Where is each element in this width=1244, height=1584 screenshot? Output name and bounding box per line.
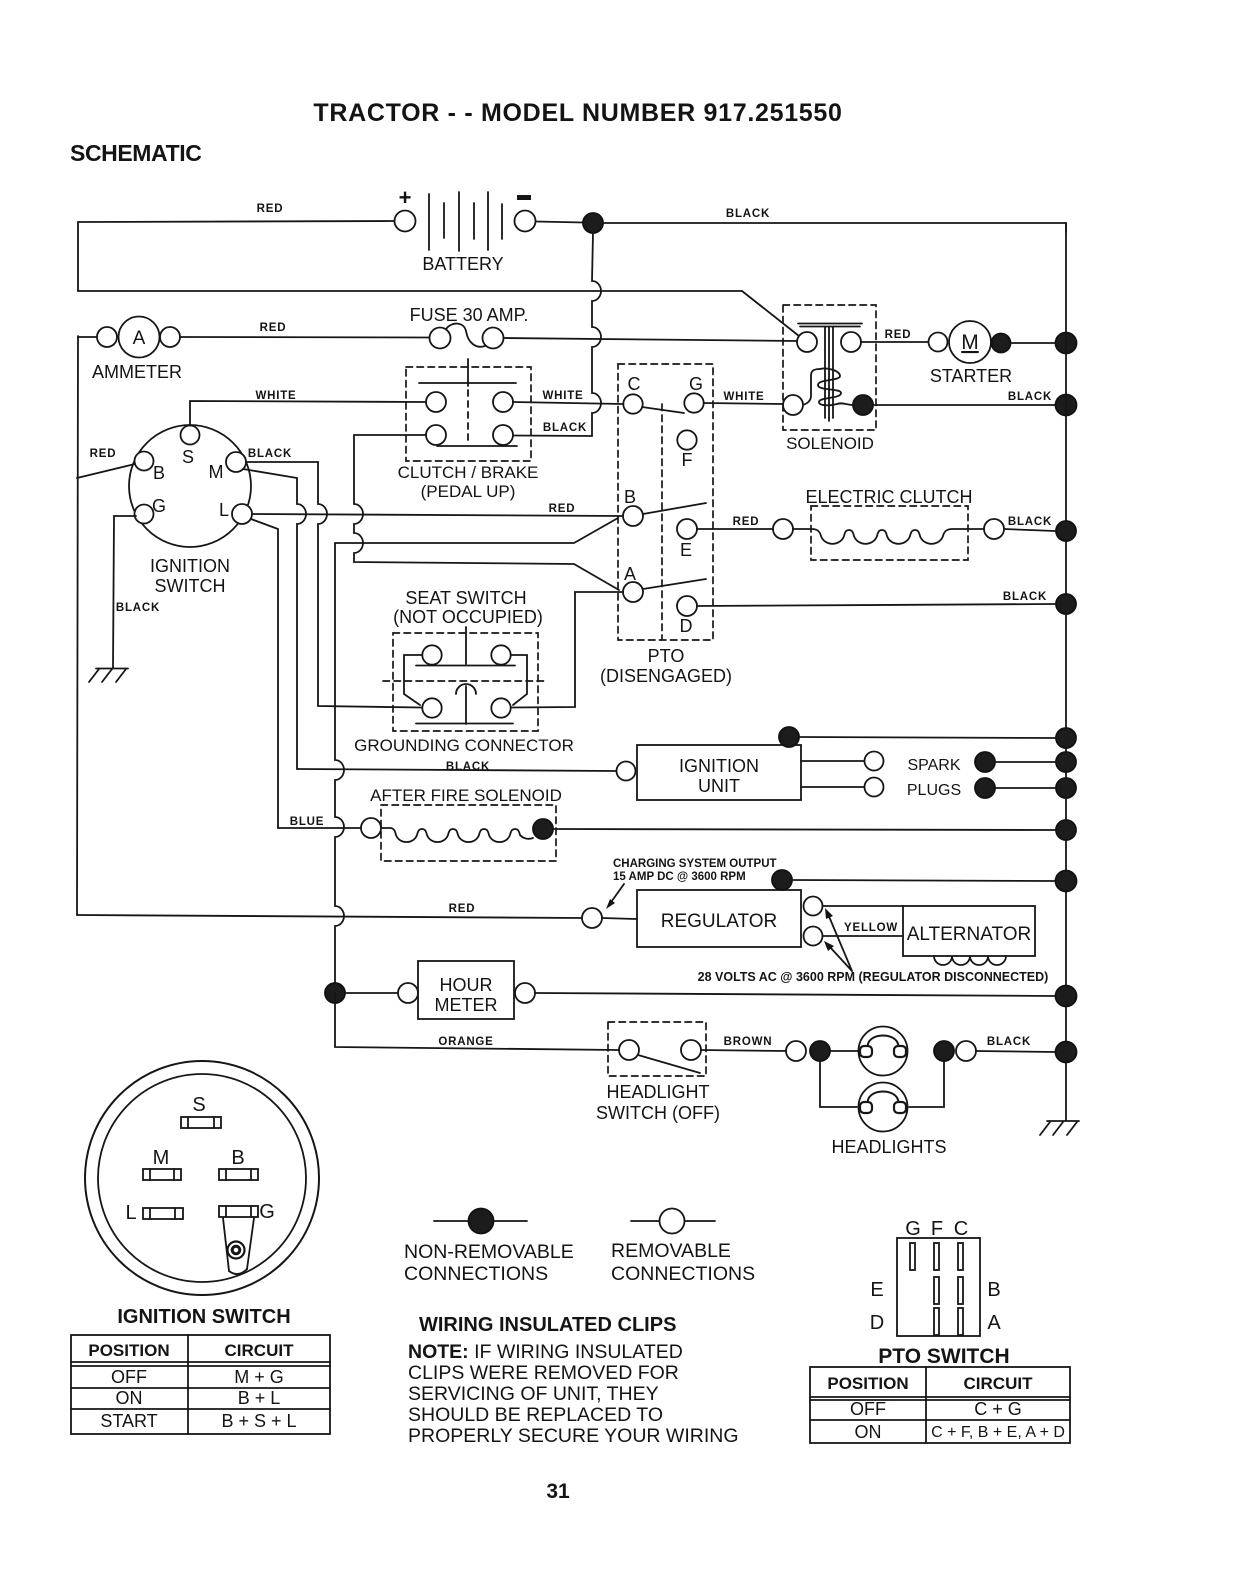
junction dot at bus (ignition unit line) [1056,728,1076,748]
wire electric clutch BLACK to right bus [1004,516,1055,531]
svg-text:BLACK: BLACK [1003,591,1047,603]
svg-text:M + G: M + G [234,1367,284,1387]
wire starter to right bus [1011,342,1056,344]
svg-text:CIRCUIT: CIRCUIT [964,1374,1034,1393]
wire solenoid to starter RED [861,329,928,342]
svg-text:WIRING INSULATED CLIPS: WIRING INSULATED CLIPS [419,1314,676,1336]
svg-text:E: E [680,540,692,560]
svg-text:HOUR: HOUR [440,975,493,995]
svg-text:SCHEMATIC: SCHEMATIC [70,140,201,166]
wire ignition unit to spark plug 2 [801,786,864,788]
svg-text:B + L: B + L [238,1388,281,1408]
spark plug terminal 2 [865,778,884,797]
svg-text:C: C [628,374,641,394]
svg-text:CONNECTIONS: CONNECTIONS [404,1263,548,1285]
ignition switch connector view [85,1061,319,1328]
svg-text:BLACK: BLACK [1008,516,1052,528]
svg-text:M: M [961,331,979,354]
wire to headlight 1 [830,1050,858,1052]
PTO switch connector view [870,1218,1010,1368]
headlight lamp E1 [859,1027,908,1076]
svg-text:M: M [209,462,224,482]
svg-text:SHOULD BE REPLACED TO: SHOULD BE REPLACED TO [408,1404,663,1426]
vertical wire battery negative drop with hops [514,233,602,436]
wiring insulated clips note [408,1314,738,1447]
clutch/brake switch S2 (pedal up) [398,359,539,501]
legend removable connection [611,1209,755,1286]
ground (right bus) [1040,1121,1079,1135]
headlight switch S5 (off) [596,1022,720,1123]
svg-text:ALTERNATOR: ALTERNATOR [907,924,1032,945]
wire regulator to alternator top [823,905,904,907]
wire battery feed to solenoid (with hops) [78,290,742,292]
svg-text:RED: RED [90,448,117,460]
svg-text:NON-REMOVABLE: NON-REMOVABLE [404,1241,574,1263]
spark plug 1 P1 [975,752,995,772]
ground (ignition switch G) [89,669,128,683]
grounding connector J1 [354,684,574,755]
headlight lamp E2 [831,1083,946,1158]
wire L terminal RED to PTO B [252,503,623,516]
svg-text:B + S + L: B + S + L [221,1411,296,1431]
pin B [958,1277,963,1304]
svg-text:(PEDAL UP): (PEDAL UP) [421,482,516,501]
wire M drop to seat switch (vertical with hop) [318,462,422,708]
svg-text:BROWN: BROWN [724,1036,773,1048]
wire PTO E RED to electric clutch [697,516,773,529]
svg-text:RED: RED [885,329,912,341]
svg-text:RED: RED [733,516,760,528]
hour meter M2 [398,961,535,1019]
terminal S slot [181,1094,221,1128]
svg-text:S: S [182,447,194,467]
junction dot regulator top [772,870,792,890]
wire battery positive RED to left bus [78,203,395,291]
svg-text:TRACTOR - - MODEL NUMBER 917.2: TRACTOR - - MODEL NUMBER 917.251550 [313,99,842,127]
svg-text:UNIT: UNIT [698,776,740,796]
seat switch S4 (not occupied) [383,588,547,731]
svg-text:CLUTCH / BRAKE: CLUTCH / BRAKE [398,463,539,482]
ammeter A1 [78,317,182,383]
svg-text:ELECTRIC CLUTCH: ELECTRIC CLUTCH [805,487,972,507]
wire regulator to alternator YELLOW [823,922,904,936]
wire L diagonal to after-fire drop [251,519,361,828]
svg-text:RED: RED [260,322,287,334]
junction dot after-fire at bus [1056,820,1076,840]
svg-text:SOLENOID: SOLENOID [786,434,874,453]
spark plug 2 P2 [975,778,995,798]
starter M1 [929,321,1013,386]
wire solenoid output BLACK to right bus [873,391,1055,405]
svg-text:WHITE: WHITE [255,390,296,402]
svg-text:F: F [931,1218,943,1240]
svg-text:HEADLIGHTS: HEADLIGHTS [831,1137,946,1157]
svg-text:28 VOLTS AC @ 3600 RPM (REGULA: 28 VOLTS AC @ 3600 RPM (REGULATOR DISCON… [698,970,1049,984]
svg-text:(NOT OCCUPIED): (NOT OCCUPIED) [393,607,543,627]
svg-text:REGULATOR: REGULATOR [661,911,778,932]
wire M diagonal to ignition-unit drop [243,469,306,769]
svg-text:A: A [987,1312,1001,1334]
junction dot battery negative [583,213,603,233]
pin E [934,1277,939,1304]
svg-text:OFF: OFF [850,1399,886,1419]
junction dot hour meter at bus [1056,986,1077,1007]
svg-text:G: G [259,1201,275,1223]
pin A [958,1308,963,1335]
svg-text:C + F, B + E, A + D: C + F, B + E, A + D [931,1424,1065,1441]
junction dot starter at bus [1056,333,1077,354]
svg-text:SPARK: SPARK [907,757,960,774]
pin G [910,1243,915,1270]
battery B1 [395,185,536,274]
svg-text:BLACK: BLACK [446,761,490,773]
svg-text:B: B [987,1279,1000,1301]
removable connector headlight return [956,1041,976,1061]
svg-text:YELLOW: YELLOW [844,922,898,934]
terminal B slot [219,1147,258,1180]
wire BLACK headlights to right bus [976,1036,1055,1052]
svg-text:L: L [125,1202,136,1224]
svg-text:G: G [689,374,703,394]
svg-text:BLACK: BLACK [543,422,587,434]
svg-text:POSITION: POSITION [88,1341,169,1360]
junction dot ignition unit top [779,727,799,747]
wire PTO D BLACK to right bus [697,591,1055,606]
svg-text:G: G [152,496,166,516]
wire fuse to solenoid RED [504,338,798,341]
svg-text:CONNECTIONS: CONNECTIONS [611,1263,755,1285]
wire hour meter to right bus [535,993,1055,996]
svg-text:AFTER FIRE SOLENOID: AFTER FIRE SOLENOID [370,786,562,805]
svg-text:PLUGS: PLUGS [907,782,961,799]
svg-text:CHARGING SYSTEM OUTPUT: CHARGING SYSTEM OUTPUT [613,858,777,870]
junction dot solenoid black at bus [1056,395,1077,416]
svg-text:PTO SWITCH: PTO SWITCH [878,1345,1009,1368]
regulator U2 [637,890,801,947]
svg-text:BLACK: BLACK [116,602,160,614]
legend non-removable connection [404,1209,574,1286]
wire B terminal RED to left bus [77,448,135,478]
after fire solenoid L2 [290,786,562,861]
svg-text:31: 31 [546,1480,570,1503]
junction dot PTO D at bus [1056,594,1076,614]
svg-text:M: M [153,1147,170,1169]
svg-text:FUSE 30 AMP.: FUSE 30 AMP. [410,305,529,325]
charging system note + arrow [606,858,777,909]
wire PTO G WHITE to solenoid [704,391,783,404]
svg-text:CLIPS WERE REMOVED FOR: CLIPS WERE REMOVED FOR [408,1362,679,1384]
right bus vertical wire [1065,223,1067,1121]
svg-text:SWITCH (OFF): SWITCH (OFF) [596,1103,720,1123]
wire clutch/brake WHITE to PTO C (hop at battery drop) [513,390,623,404]
svg-text:L: L [219,500,229,520]
svg-text:ON: ON [855,1422,882,1442]
junction dot hour meter feed [325,983,345,1003]
junction dot headlights at bus [1056,1042,1077,1063]
wire grounding BLACK to ignition unit [297,761,617,773]
wire branch to headlight 2 right [909,1061,944,1107]
ignition unit U1 [617,745,802,800]
junction dot headlight branch left [810,1041,830,1061]
svg-text:REMOVABLE: REMOVABLE [611,1240,731,1262]
wire battery negative to junction [536,222,584,223]
terminal G slot [219,1201,275,1223]
wire accessory feed drop (B node to hour meter / orange) [335,518,618,543]
wire branch to headlight 2 left [820,1061,857,1107]
pin D [934,1308,939,1335]
ignition switch S1 (schematic) [129,425,252,596]
svg-text:B: B [624,487,636,507]
svg-text:POSITION: POSITION [827,1374,908,1393]
wire ignition unit to spark plug 1 [801,760,864,762]
wire regulator top to right bus [792,880,1055,881]
terminal M slot [143,1147,181,1180]
svg-text:PROPERLY SECURE YOUR WIRING: PROPERLY SECURE YOUR WIRING [408,1425,738,1447]
wire regulator input RED from left bus [77,903,582,918]
svg-text:ORANGE: ORANGE [438,1036,493,1048]
svg-text:STARTER: STARTER [930,366,1012,386]
wire to hour meter [345,992,398,994]
svg-text:A: A [133,328,146,349]
fuse F1 30A [410,305,529,349]
svg-text:B: B [153,463,165,483]
svg-text:BLACK: BLACK [987,1036,1031,1048]
svg-text:A: A [624,564,636,584]
svg-text:15 AMP DC @ 3600 RPM: 15 AMP DC @ 3600 RPM [613,871,746,883]
svg-text:RED: RED [257,203,284,215]
svg-text:IGNITION: IGNITION [679,756,759,776]
svg-text:S: S [192,1094,205,1116]
wire ammeter to fuse RED [180,322,430,338]
solenoid K1 [783,305,876,453]
svg-text:D: D [870,1312,884,1334]
svg-text:START: START [100,1411,157,1431]
svg-text:C + G: C + G [974,1399,1022,1419]
svg-text:RED: RED [449,903,476,915]
svg-text:D: D [680,616,693,636]
wire S terminal WHITE up to clutch/brake [190,390,426,426]
spark plug terminal 1 [865,752,884,771]
svg-text:METER: METER [435,995,498,1015]
wire clutch/brake lower-left to A-drop [354,434,426,436]
wire M terminal BLACK horizontal to seat-switch drop [246,448,318,462]
svg-text:GROUNDING CONNECTOR: GROUNDING CONNECTOR [354,736,574,755]
svg-text:BLUE: BLUE [290,816,325,828]
svg-text:IGNITION: IGNITION [150,556,230,576]
svg-text:SERVICING OF UNIT, THEY: SERVICING OF UNIT, THEY [408,1383,659,1405]
svg-text:BATTERY: BATTERY [422,254,503,274]
pin C [958,1243,963,1270]
PTO switch S3 (disengaged) [600,364,732,686]
key index pointer [223,1218,254,1274]
pin F [934,1243,939,1270]
wire ignition unit top to right bus [799,737,1056,738]
svg-text:PTO: PTO [648,646,685,666]
svg-text:SWITCH: SWITCH [155,576,226,596]
svg-text:ON: ON [116,1388,143,1408]
alternator G1 [903,906,1035,965]
terminal L slot [125,1202,183,1224]
svg-text:+: + [399,185,412,210]
svg-text:B: B [231,1147,244,1169]
svg-text:BLACK: BLACK [248,448,292,460]
electric clutch L1 [773,487,1004,560]
wire ORANGE to headlight switch [335,993,619,1050]
svg-text:SEAT SWITCH: SEAT SWITCH [405,588,526,608]
svg-text:IGNITION SWITCH: IGNITION SWITCH [117,1306,290,1328]
wire diagonal into solenoid [742,291,799,336]
alternator voltage note with arrows [698,908,1049,984]
svg-text:G: G [905,1218,921,1240]
svg-text:HEADLIGHT: HEADLIGHT [606,1082,709,1102]
svg-text:BLACK: BLACK [1008,391,1052,403]
svg-text:WHITE: WHITE [723,391,764,403]
svg-text:RED: RED [549,503,576,515]
svg-text:CIRCUIT: CIRCUIT [225,1341,295,1360]
svg-text:AMMETER: AMMETER [92,362,182,382]
svg-text:NOTE: IF WIRING INSULATED: NOTE: IF WIRING INSULATED [408,1341,683,1363]
svg-text:OFF: OFF [111,1367,147,1387]
svg-text:E: E [870,1279,883,1301]
junction dot electric clutch at bus [1056,521,1076,541]
svg-text:F: F [682,450,693,470]
wire after-fire to right bus [553,829,1056,830]
regulator input terminal [582,908,602,928]
svg-text:(DISENGAGED): (DISENGAGED) [600,666,732,686]
PTO switch table [810,1367,1070,1443]
wire clutch/brake to PTO A (vertical with hops) [354,435,619,590]
svg-text:BLACK: BLACK [726,208,770,220]
wire BROWN to headlights [701,1036,786,1051]
wire G terminal BLACK to ground [113,516,160,668]
wire seat switch to PTO A riser [511,592,623,708]
left bus vertical wire (ammeter to regulator) [77,337,78,915]
removable connector headlight feed [786,1041,806,1061]
regulator AC terminals [804,897,823,916]
junction dot headlight branch right [934,1041,954,1061]
svg-text:WHITE: WHITE [542,390,583,402]
svg-text:C: C [954,1218,968,1240]
junction dot at bus (charging line) [1056,871,1077,892]
ignition switch table [71,1335,330,1434]
wire BLACK battery negative to right bus [603,208,1066,232]
